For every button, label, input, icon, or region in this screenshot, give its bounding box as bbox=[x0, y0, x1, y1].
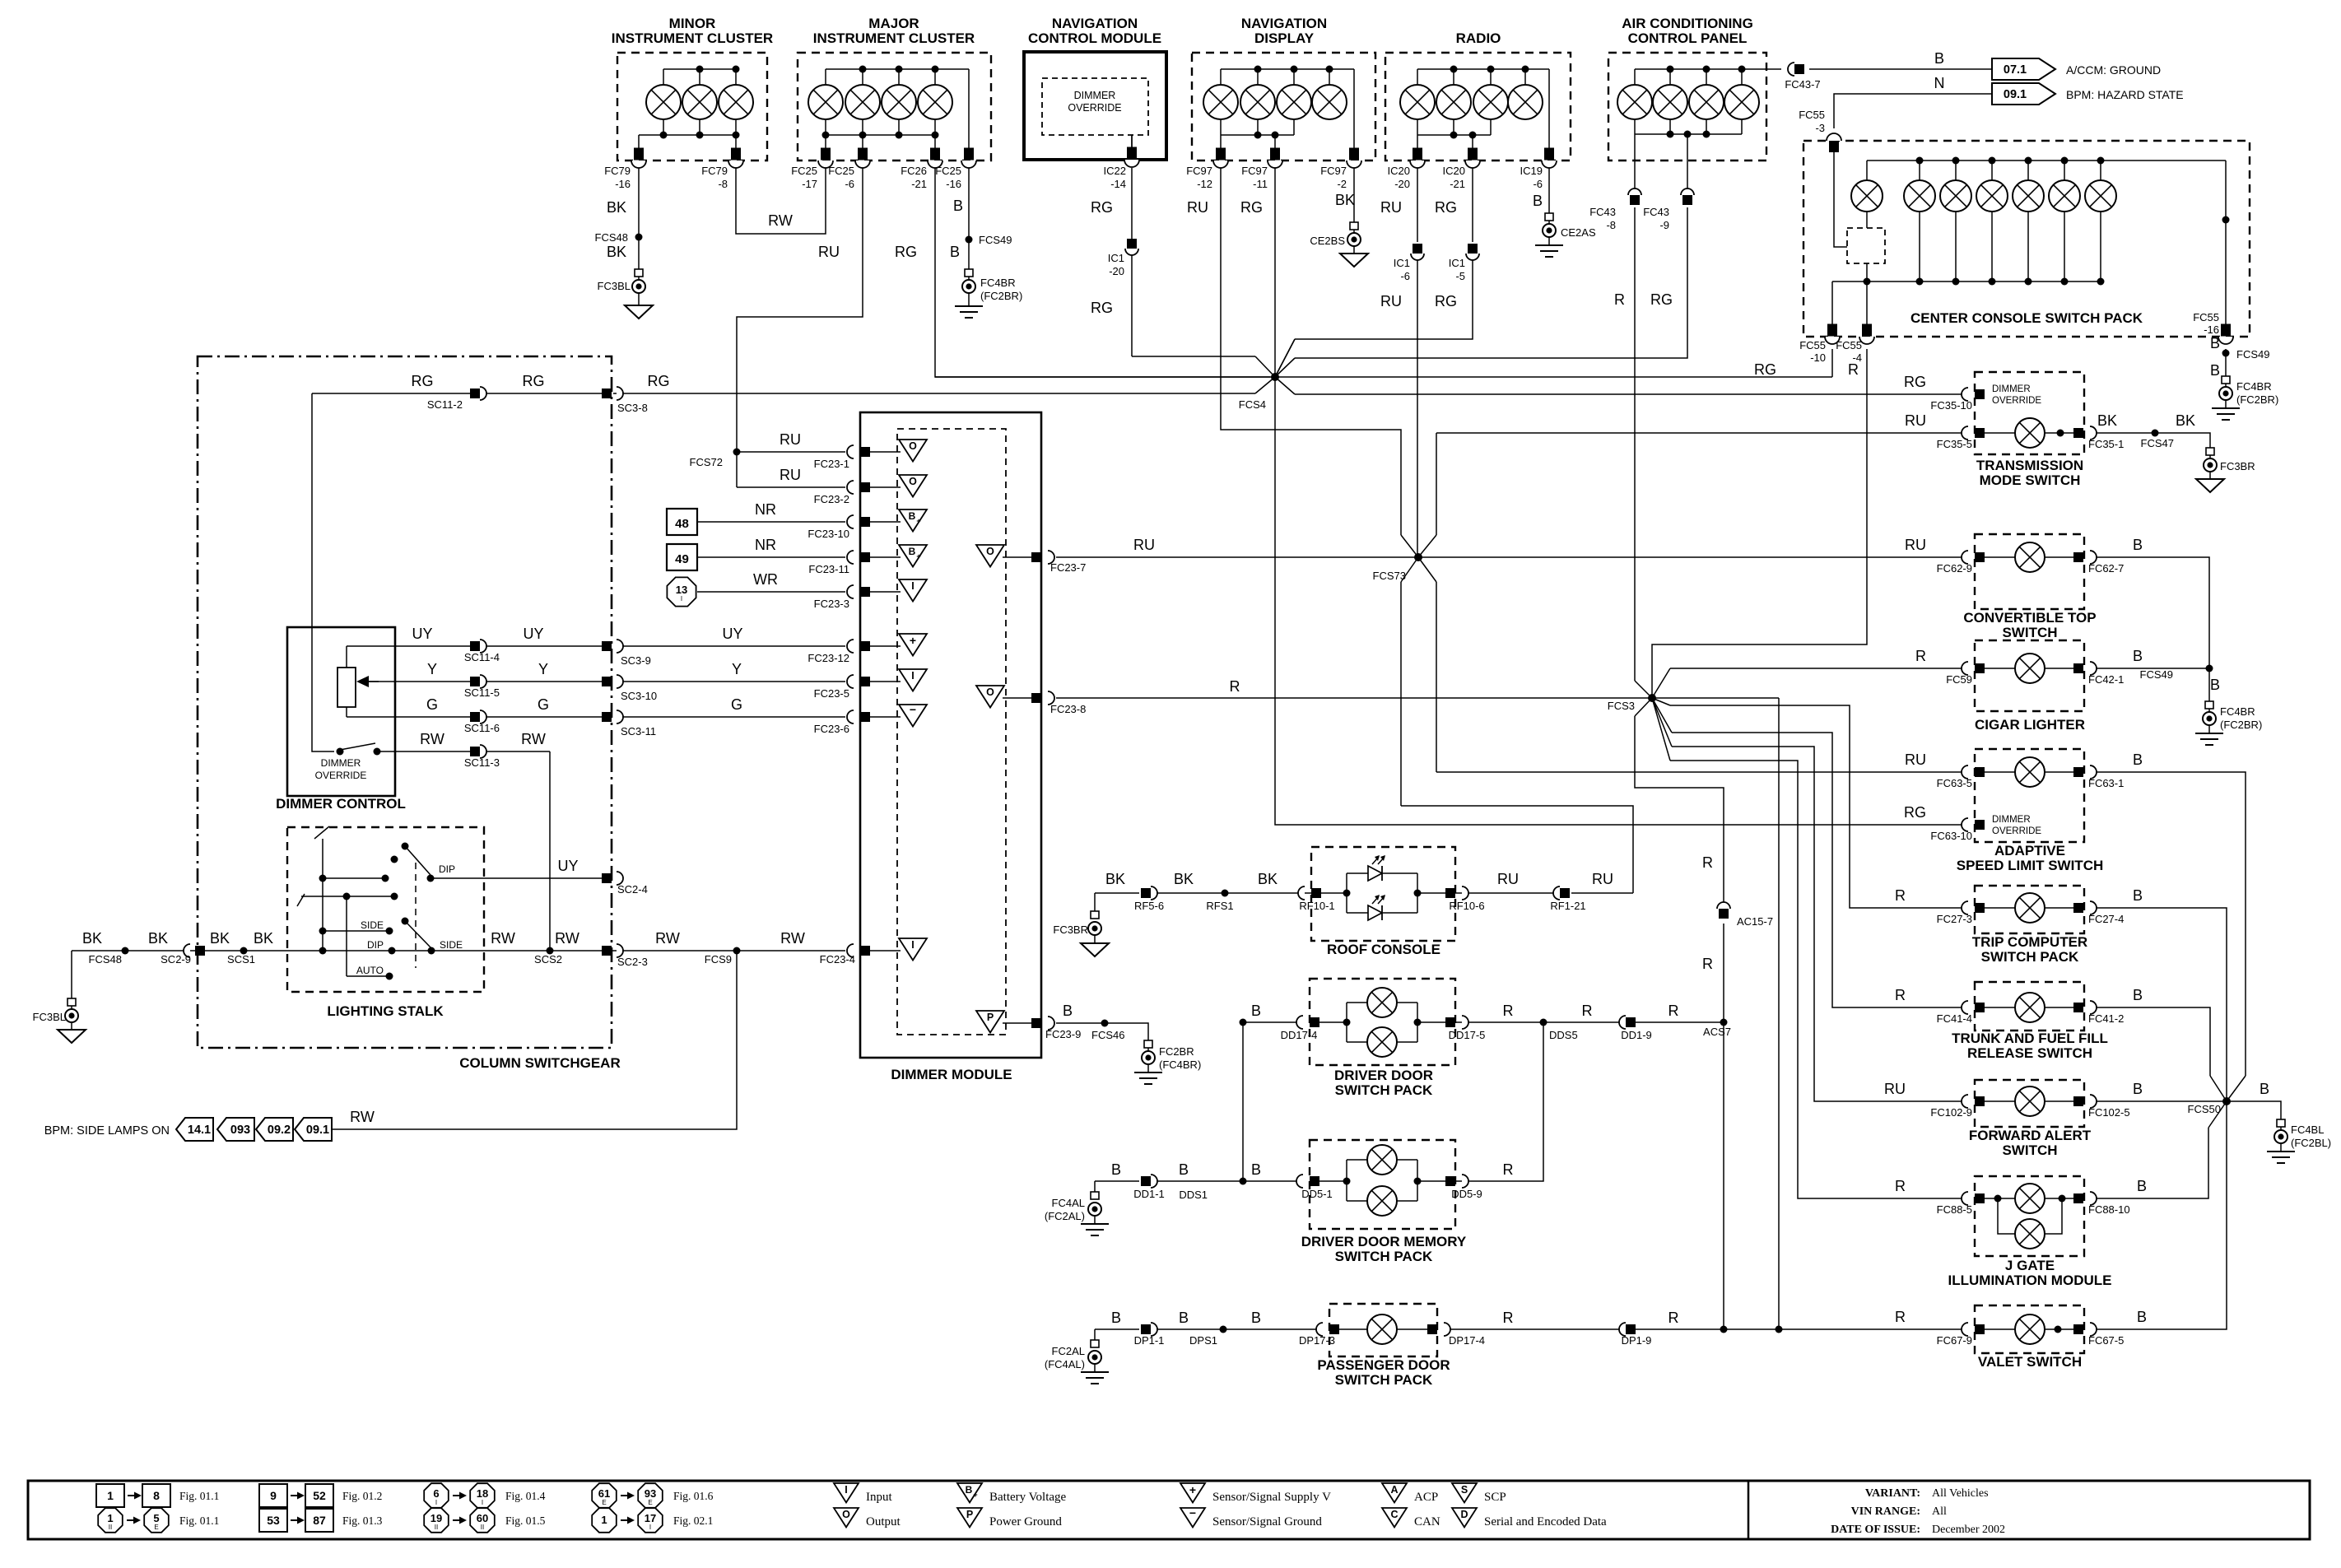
svg-text:FC25: FC25 bbox=[828, 165, 854, 177]
svg-text:FC55: FC55 bbox=[1799, 109, 1825, 121]
svg-text:RW: RW bbox=[555, 930, 579, 947]
svg-text:BK: BK bbox=[2097, 412, 2117, 429]
svg-text:(FC2BR): (FC2BR) bbox=[2220, 719, 2262, 731]
svg-text:07.1: 07.1 bbox=[2004, 63, 2027, 77]
svg-text:All Vehicles: All Vehicles bbox=[1932, 1487, 1989, 1500]
svg-text:-17: -17 bbox=[802, 178, 817, 190]
svg-text:−: − bbox=[910, 703, 916, 716]
svg-text:-10: -10 bbox=[1810, 351, 1826, 364]
svg-text:DD5-9: DD5-9 bbox=[1451, 1188, 1482, 1200]
svg-text:FC23-11: FC23-11 bbox=[808, 563, 849, 575]
svg-text:BK: BK bbox=[607, 199, 626, 216]
svg-text:FCS3: FCS3 bbox=[1608, 700, 1635, 712]
svg-text:OVERRIDE: OVERRIDE bbox=[315, 770, 367, 781]
svg-text:J GATE: J GATE bbox=[2005, 1258, 2055, 1273]
svg-text:FCS4: FCS4 bbox=[1239, 398, 1266, 411]
svg-text:R: R bbox=[1614, 291, 1625, 308]
svg-text:NAVIGATION: NAVIGATION bbox=[1241, 16, 1327, 31]
svg-text:FC25: FC25 bbox=[935, 165, 961, 177]
svg-text:RG: RG bbox=[412, 373, 434, 389]
svg-text:Fig. 02.1: Fig. 02.1 bbox=[673, 1514, 713, 1527]
svg-text:5: 5 bbox=[153, 1512, 159, 1524]
svg-text:Y: Y bbox=[427, 661, 437, 677]
svg-text:FC35-5: FC35-5 bbox=[1937, 438, 1972, 450]
svg-text:TRUNK AND FUEL FILL: TRUNK AND FUEL FILL bbox=[1952, 1031, 2108, 1046]
svg-text:SIDE: SIDE bbox=[440, 939, 463, 951]
svg-text:ADAPTIVE: ADAPTIVE bbox=[1994, 843, 2065, 858]
svg-text:FORWARD ALERT: FORWARD ALERT bbox=[1969, 1128, 2092, 1143]
svg-text:SWITCH: SWITCH bbox=[2002, 625, 2057, 640]
svg-text:SPEED LIMIT SWITCH: SPEED LIMIT SWITCH bbox=[1957, 858, 2104, 873]
svg-text:CIGAR LIGHTER: CIGAR LIGHTER bbox=[1975, 717, 2085, 733]
svg-text:FC2BR: FC2BR bbox=[1159, 1045, 1194, 1058]
svg-text:E: E bbox=[602, 1499, 606, 1506]
svg-text:RW: RW bbox=[768, 212, 793, 229]
svg-text:CAN: CAN bbox=[1414, 1515, 1440, 1528]
svg-text:MODE SWITCH: MODE SWITCH bbox=[1980, 472, 2081, 488]
svg-text:14.1: 14.1 bbox=[188, 1124, 211, 1137]
svg-text:SWITCH PACK: SWITCH PACK bbox=[1981, 949, 2079, 965]
svg-text:Sensor/Signal Ground: Sensor/Signal Ground bbox=[1212, 1515, 1322, 1528]
svg-text:FC41-2: FC41-2 bbox=[2088, 1012, 2124, 1025]
svg-text:SWITCH PACK: SWITCH PACK bbox=[1335, 1372, 1433, 1388]
svg-text:(FC2BL): (FC2BL) bbox=[2291, 1137, 2331, 1149]
svg-text:RG: RG bbox=[648, 373, 670, 389]
svg-text:RU: RU bbox=[1380, 293, 1402, 309]
svg-text:Power Ground: Power Ground bbox=[989, 1515, 1062, 1528]
svg-text:FC67-5: FC67-5 bbox=[2088, 1334, 2124, 1347]
svg-text:RU: RU bbox=[1884, 1081, 1906, 1097]
svg-text:UY: UY bbox=[523, 626, 543, 642]
svg-text:RG: RG bbox=[1435, 199, 1457, 216]
svg-text:CE2BS: CE2BS bbox=[1310, 235, 1345, 247]
svg-text:8: 8 bbox=[153, 1489, 160, 1502]
svg-text:-8: -8 bbox=[718, 178, 728, 190]
svg-text:FC43: FC43 bbox=[1643, 206, 1669, 218]
svg-text:RF10-6: RF10-6 bbox=[1449, 900, 1484, 912]
svg-text:53: 53 bbox=[267, 1514, 280, 1527]
svg-text:09.1: 09.1 bbox=[306, 1124, 329, 1137]
svg-text:Fig. 01.5: Fig. 01.5 bbox=[505, 1514, 546, 1527]
svg-text:93: 93 bbox=[645, 1487, 656, 1500]
svg-text:FC97: FC97 bbox=[1320, 165, 1347, 177]
svg-text:19: 19 bbox=[431, 1512, 442, 1524]
svg-text:FC27-3: FC27-3 bbox=[1937, 913, 1972, 925]
svg-text:O: O bbox=[986, 546, 994, 557]
svg-text:CONTROL PANEL: CONTROL PANEL bbox=[1628, 30, 1748, 46]
svg-text:49: 49 bbox=[675, 552, 689, 566]
svg-text:FC23-4: FC23-4 bbox=[820, 953, 855, 965]
svg-text:IC20: IC20 bbox=[1388, 165, 1410, 177]
svg-text:61: 61 bbox=[598, 1487, 610, 1500]
svg-text:I: I bbox=[911, 939, 914, 951]
svg-text:A/CCM: GROUND: A/CCM: GROUND bbox=[2066, 63, 2161, 77]
svg-text:-16: -16 bbox=[946, 178, 961, 190]
svg-text:IC1: IC1 bbox=[1394, 257, 1410, 269]
svg-text:1: 1 bbox=[107, 1512, 113, 1524]
svg-text:I: I bbox=[649, 1524, 651, 1531]
svg-text:SIDE: SIDE bbox=[361, 919, 384, 931]
svg-text:(FC4AL): (FC4AL) bbox=[1045, 1358, 1085, 1370]
svg-text:RW: RW bbox=[780, 930, 805, 947]
svg-text:B: B bbox=[1533, 193, 1543, 209]
svg-text:Fig. 01.4: Fig. 01.4 bbox=[505, 1490, 546, 1502]
svg-text:BK: BK bbox=[607, 244, 626, 260]
svg-text:DD17-5: DD17-5 bbox=[1449, 1029, 1486, 1041]
svg-text:52: 52 bbox=[313, 1489, 326, 1502]
svg-text:RW: RW bbox=[350, 1109, 375, 1125]
svg-text:ROOF CONSOLE: ROOF CONSOLE bbox=[1327, 942, 1440, 957]
svg-text:-5: -5 bbox=[1455, 270, 1465, 282]
svg-text:-11: -11 bbox=[1253, 178, 1268, 190]
svg-text:G: G bbox=[538, 696, 549, 713]
svg-text:MAJOR: MAJOR bbox=[868, 16, 919, 31]
svg-text:DRIVER DOOR MEMORY: DRIVER DOOR MEMORY bbox=[1301, 1234, 1467, 1249]
svg-text:OVERRIDE: OVERRIDE bbox=[1068, 102, 1121, 114]
svg-text:DP17-4: DP17-4 bbox=[1449, 1334, 1485, 1347]
svg-text:S: S bbox=[1461, 1484, 1468, 1496]
svg-text:BK: BK bbox=[82, 930, 102, 947]
svg-text:B: B bbox=[1111, 1161, 1121, 1178]
svg-text:B: B bbox=[1063, 1003, 1073, 1019]
svg-text:B: B bbox=[2210, 335, 2220, 351]
svg-text:SCS1: SCS1 bbox=[227, 953, 255, 965]
svg-text:R: R bbox=[1915, 648, 1926, 664]
svg-text:RU: RU bbox=[780, 467, 801, 483]
svg-text:FC23-6: FC23-6 bbox=[814, 723, 849, 735]
svg-text:DDS5: DDS5 bbox=[1549, 1029, 1578, 1041]
svg-text:I: I bbox=[435, 1499, 437, 1506]
svg-text:Y: Y bbox=[732, 661, 742, 677]
svg-text:FC102-9: FC102-9 bbox=[1930, 1106, 1972, 1119]
svg-text:R: R bbox=[1702, 956, 1713, 972]
svg-text:LIGHTING STALK: LIGHTING STALK bbox=[327, 1003, 444, 1019]
svg-text:IC20: IC20 bbox=[1443, 165, 1465, 177]
svg-text:B: B bbox=[2133, 751, 2143, 768]
svg-text:B: B bbox=[2133, 648, 2143, 664]
svg-text:UY: UY bbox=[557, 858, 578, 874]
svg-text:Sensor/Signal Supply V: Sensor/Signal Supply V bbox=[1212, 1491, 1331, 1504]
svg-text:FC23-3: FC23-3 bbox=[814, 598, 849, 610]
svg-text:All: All bbox=[1932, 1505, 1947, 1518]
svg-text:PASSENGER DOOR: PASSENGER DOOR bbox=[1317, 1357, 1450, 1373]
svg-text:FC55: FC55 bbox=[1836, 339, 1862, 351]
svg-text:RF5-6: RF5-6 bbox=[1134, 900, 1164, 912]
svg-text:SC11-3: SC11-3 bbox=[464, 756, 500, 769]
svg-text:FC3BL: FC3BL bbox=[598, 280, 631, 292]
svg-text:FC23-1: FC23-1 bbox=[814, 458, 849, 470]
svg-text:CONVERTIBLE TOP: CONVERTIBLE TOP bbox=[1963, 610, 2096, 626]
svg-text:-16: -16 bbox=[2204, 323, 2219, 336]
svg-text:1: 1 bbox=[107, 1489, 114, 1502]
svg-text:FC23-10: FC23-10 bbox=[807, 528, 849, 540]
svg-text:RW: RW bbox=[491, 930, 515, 947]
svg-text:FC59: FC59 bbox=[1946, 673, 1972, 686]
svg-text:FC41-4: FC41-4 bbox=[1937, 1012, 1972, 1025]
svg-text:48: 48 bbox=[675, 517, 689, 531]
svg-text:Serial and Encoded Data: Serial and Encoded Data bbox=[1484, 1515, 1607, 1528]
svg-text:-21: -21 bbox=[1450, 178, 1465, 190]
svg-text:B: B bbox=[1251, 1161, 1261, 1178]
svg-text:BK: BK bbox=[254, 930, 273, 947]
svg-text:DRIVER DOOR: DRIVER DOOR bbox=[1334, 1068, 1433, 1083]
svg-text:(FC4BR): (FC4BR) bbox=[1159, 1059, 1201, 1071]
svg-text:B: B bbox=[950, 244, 960, 260]
svg-text:-8: -8 bbox=[1606, 219, 1616, 231]
svg-text:December 2002: December 2002 bbox=[1932, 1524, 2005, 1536]
svg-text:B: B bbox=[1179, 1161, 1189, 1178]
svg-text:NAVIGATION: NAVIGATION bbox=[1052, 16, 1138, 31]
svg-text:RU: RU bbox=[1592, 871, 1613, 887]
svg-text:R: R bbox=[1895, 987, 1906, 1003]
svg-text:SWITCH PACK: SWITCH PACK bbox=[1335, 1082, 1433, 1098]
svg-text:A: A bbox=[1390, 1484, 1398, 1496]
svg-text:FC63-10: FC63-10 bbox=[1930, 830, 1972, 842]
svg-text:R: R bbox=[1582, 1003, 1593, 1019]
svg-text:TRANSMISSION: TRANSMISSION bbox=[1976, 458, 2083, 473]
svg-text:I: I bbox=[681, 595, 682, 603]
svg-text:Output: Output bbox=[866, 1515, 901, 1528]
svg-text:II: II bbox=[109, 1524, 112, 1531]
svg-text:FC35-1: FC35-1 bbox=[2088, 438, 2124, 450]
svg-text:P: P bbox=[987, 1012, 994, 1023]
svg-text:SCP: SCP bbox=[1484, 1491, 1506, 1504]
svg-text:B: B bbox=[2137, 1309, 2147, 1325]
svg-text:-21: -21 bbox=[911, 178, 927, 190]
svg-text:ACP: ACP bbox=[1414, 1491, 1438, 1504]
svg-text:FCS73: FCS73 bbox=[1373, 570, 1406, 582]
svg-text:FC23-5: FC23-5 bbox=[814, 687, 849, 700]
svg-text:RG: RG bbox=[1650, 291, 1673, 308]
svg-text:DD5-1: DD5-1 bbox=[1301, 1188, 1333, 1200]
svg-text:B: B bbox=[2133, 887, 2143, 904]
svg-text:B: B bbox=[1111, 1310, 1121, 1326]
svg-text:RG: RG bbox=[1754, 361, 1776, 378]
svg-text:RW: RW bbox=[420, 731, 444, 747]
svg-text:VIN RANGE:: VIN RANGE: bbox=[1851, 1505, 1920, 1518]
svg-text:AC15-7: AC15-7 bbox=[1737, 915, 1773, 928]
svg-text:B: B bbox=[953, 198, 963, 214]
svg-text:FC25: FC25 bbox=[791, 165, 817, 177]
svg-text:B: B bbox=[2133, 537, 2143, 553]
svg-text:ILLUMINATION MODULE: ILLUMINATION MODULE bbox=[1948, 1273, 2112, 1288]
svg-text:+: + bbox=[973, 1491, 977, 1499]
svg-text:DIMMER: DIMMER bbox=[1992, 384, 2031, 394]
svg-text:FC97: FC97 bbox=[1241, 165, 1268, 177]
svg-text:FC79: FC79 bbox=[701, 165, 728, 177]
svg-text:DIMMER: DIMMER bbox=[321, 757, 361, 769]
svg-text:DD1-1: DD1-1 bbox=[1133, 1188, 1165, 1200]
svg-text:G: G bbox=[731, 696, 742, 713]
svg-text:09.2: 09.2 bbox=[268, 1124, 291, 1137]
svg-text:FC79: FC79 bbox=[604, 165, 631, 177]
svg-text:R: R bbox=[1503, 1310, 1514, 1326]
svg-text:RG: RG bbox=[1240, 199, 1263, 216]
svg-text:OVERRIDE: OVERRIDE bbox=[1992, 826, 2041, 836]
svg-text:VALET SWITCH: VALET SWITCH bbox=[1978, 1354, 2082, 1370]
svg-text:13: 13 bbox=[676, 584, 687, 596]
svg-text:-12: -12 bbox=[1197, 178, 1212, 190]
svg-text:-2: -2 bbox=[1337, 178, 1347, 190]
svg-text:DIMMER MODULE: DIMMER MODULE bbox=[891, 1067, 1012, 1082]
svg-text:SC2-9: SC2-9 bbox=[161, 953, 191, 965]
svg-text:RU: RU bbox=[1380, 199, 1402, 216]
svg-text:IC1: IC1 bbox=[1108, 252, 1124, 264]
svg-text:OVERRIDE: OVERRIDE bbox=[1992, 396, 2041, 406]
svg-text:NR: NR bbox=[755, 537, 776, 553]
svg-text:RU: RU bbox=[1133, 537, 1155, 553]
svg-text:B: B bbox=[2133, 1081, 2143, 1097]
svg-text:9: 9 bbox=[270, 1489, 277, 1502]
svg-text:-6: -6 bbox=[1533, 178, 1543, 190]
svg-text:Battery Voltage: Battery Voltage bbox=[989, 1491, 1067, 1504]
svg-text:DPS1: DPS1 bbox=[1189, 1334, 1217, 1347]
svg-text:FCS48: FCS48 bbox=[595, 231, 628, 244]
svg-text:II: II bbox=[435, 1524, 438, 1531]
svg-text:-9: -9 bbox=[1659, 219, 1669, 231]
svg-text:FC43-7: FC43-7 bbox=[1785, 78, 1820, 91]
svg-text:RW: RW bbox=[655, 930, 680, 947]
svg-text:FC67-9: FC67-9 bbox=[1937, 1334, 1972, 1347]
svg-text:R: R bbox=[1895, 1178, 1906, 1194]
svg-text:60: 60 bbox=[477, 1512, 488, 1524]
svg-text:B: B bbox=[1179, 1310, 1189, 1326]
svg-text:FC27-4: FC27-4 bbox=[2088, 913, 2124, 925]
svg-text:RF1-21: RF1-21 bbox=[1550, 900, 1585, 912]
svg-text:FCS72: FCS72 bbox=[690, 456, 723, 468]
svg-text:TRIP COMPUTER: TRIP COMPUTER bbox=[1972, 934, 2087, 950]
svg-text:FC35-10: FC35-10 bbox=[1930, 399, 1972, 412]
svg-text:-20: -20 bbox=[1394, 178, 1410, 190]
svg-text:BK: BK bbox=[148, 930, 168, 947]
svg-text:R: R bbox=[1503, 1161, 1514, 1178]
svg-text:B: B bbox=[909, 546, 916, 557]
svg-text:SC3-8: SC3-8 bbox=[617, 402, 648, 414]
svg-text:BK: BK bbox=[210, 930, 230, 947]
svg-text:17: 17 bbox=[645, 1512, 656, 1524]
svg-text:C: C bbox=[1390, 1509, 1398, 1520]
svg-text:CENTER CONSOLE SWITCH PACK: CENTER CONSOLE SWITCH PACK bbox=[1910, 310, 2143, 326]
svg-text:FCS46: FCS46 bbox=[1091, 1029, 1124, 1041]
svg-text:RG: RG bbox=[1904, 374, 1926, 390]
svg-text:R: R bbox=[1895, 1309, 1906, 1325]
svg-text:R: R bbox=[1668, 1003, 1679, 1019]
svg-text:+: + bbox=[916, 517, 920, 525]
svg-text:FC62-7: FC62-7 bbox=[2088, 562, 2124, 575]
svg-text:R: R bbox=[1848, 361, 1859, 378]
svg-text:RFS1: RFS1 bbox=[1206, 900, 1233, 912]
svg-text:87: 87 bbox=[313, 1514, 326, 1527]
svg-text:P: P bbox=[966, 1509, 973, 1520]
svg-text:BPM: HAZARD STATE: BPM: HAZARD STATE bbox=[2066, 88, 2184, 101]
svg-text:SWITCH PACK: SWITCH PACK bbox=[1335, 1249, 1433, 1264]
svg-text:DP17-3: DP17-3 bbox=[1299, 1334, 1335, 1347]
svg-text:-6: -6 bbox=[845, 178, 854, 190]
svg-text:FCS49: FCS49 bbox=[2236, 348, 2269, 361]
svg-text:AIR CONDITIONING: AIR CONDITIONING bbox=[1622, 16, 1753, 31]
svg-text:FC4AL: FC4AL bbox=[1052, 1197, 1085, 1209]
svg-text:B: B bbox=[1251, 1310, 1261, 1326]
svg-text:FCS47: FCS47 bbox=[2141, 437, 2174, 449]
svg-text:CE2AS: CE2AS bbox=[1561, 226, 1596, 239]
svg-text:FC55: FC55 bbox=[1799, 339, 1826, 351]
svg-text:-3: -3 bbox=[1815, 122, 1825, 134]
svg-text:SC3-10: SC3-10 bbox=[621, 690, 657, 702]
svg-text:+: + bbox=[910, 634, 916, 647]
svg-text:E: E bbox=[648, 1499, 652, 1506]
svg-text:O: O bbox=[842, 1509, 850, 1520]
svg-text:(FC2BR): (FC2BR) bbox=[980, 290, 1022, 302]
svg-text:N: N bbox=[1934, 75, 1945, 91]
svg-text:Fig. 01.6: Fig. 01.6 bbox=[673, 1490, 714, 1502]
svg-text:FC42-1: FC42-1 bbox=[2088, 673, 2124, 686]
svg-text:FC4BR: FC4BR bbox=[2236, 380, 2272, 393]
svg-text:VARIANT:: VARIANT: bbox=[1865, 1487, 1920, 1500]
svg-text:R: R bbox=[1668, 1310, 1679, 1326]
svg-text:IC22: IC22 bbox=[1104, 165, 1126, 177]
svg-text:RU: RU bbox=[1905, 537, 1926, 553]
svg-text:-14: -14 bbox=[1110, 178, 1126, 190]
svg-text:RU: RU bbox=[780, 431, 801, 448]
svg-text:R: R bbox=[1230, 678, 1240, 695]
svg-text:SC11-5: SC11-5 bbox=[464, 686, 500, 699]
svg-text:(FC2BR): (FC2BR) bbox=[2236, 393, 2278, 406]
svg-text:Fig. 01.1: Fig. 01.1 bbox=[179, 1490, 219, 1502]
svg-text:B: B bbox=[2137, 1178, 2147, 1194]
svg-text:BK: BK bbox=[1258, 871, 1278, 887]
svg-text:G: G bbox=[426, 696, 438, 713]
svg-text:B: B bbox=[966, 1484, 973, 1496]
svg-text:RU: RU bbox=[1905, 412, 1926, 429]
svg-text:+: + bbox=[916, 552, 920, 561]
svg-text:WR: WR bbox=[753, 571, 778, 588]
svg-text:BPM: SIDE LAMPS ON: BPM: SIDE LAMPS ON bbox=[44, 1124, 170, 1138]
svg-text:FC63-1: FC63-1 bbox=[2088, 777, 2124, 789]
svg-text:RU: RU bbox=[1187, 199, 1208, 216]
svg-text:FC3BR: FC3BR bbox=[1053, 924, 1088, 936]
svg-text:RADIO: RADIO bbox=[1456, 30, 1501, 46]
svg-text:O: O bbox=[909, 440, 917, 452]
svg-text:FC23-9: FC23-9 bbox=[1045, 1028, 1081, 1040]
svg-text:SC3-9: SC3-9 bbox=[621, 654, 651, 667]
svg-text:RG: RG bbox=[1435, 293, 1457, 309]
svg-text:BK: BK bbox=[1335, 192, 1355, 208]
svg-text:BK: BK bbox=[2176, 412, 2195, 429]
svg-text:I: I bbox=[482, 1499, 483, 1506]
svg-text:I: I bbox=[845, 1484, 847, 1496]
svg-text:B: B bbox=[1934, 50, 1944, 67]
svg-text:SC3-11: SC3-11 bbox=[621, 725, 656, 737]
svg-text:DIP: DIP bbox=[367, 939, 384, 951]
svg-text:IC1: IC1 bbox=[1449, 257, 1465, 269]
svg-text:FC102-5: FC102-5 bbox=[2088, 1106, 2130, 1119]
svg-text:FCS9: FCS9 bbox=[705, 953, 732, 965]
svg-text:IC19: IC19 bbox=[1520, 165, 1543, 177]
svg-text:+: + bbox=[1189, 1483, 1196, 1496]
svg-text:SC11-2: SC11-2 bbox=[427, 398, 463, 411]
svg-text:DIMMER CONTROL: DIMMER CONTROL bbox=[276, 796, 406, 812]
svg-text:CONTROL MODULE: CONTROL MODULE bbox=[1028, 30, 1161, 46]
svg-text:FC23-8: FC23-8 bbox=[1050, 703, 1086, 715]
svg-text:RG: RG bbox=[895, 244, 917, 260]
svg-text:I: I bbox=[911, 670, 914, 682]
svg-text:FCS49: FCS49 bbox=[979, 234, 1012, 246]
svg-text:UY: UY bbox=[722, 626, 742, 642]
svg-text:DISPLAY: DISPLAY bbox=[1254, 30, 1315, 46]
svg-text:BK: BK bbox=[1105, 871, 1125, 887]
svg-text:FC23-7: FC23-7 bbox=[1050, 561, 1086, 574]
svg-text:BK: BK bbox=[1174, 871, 1194, 887]
